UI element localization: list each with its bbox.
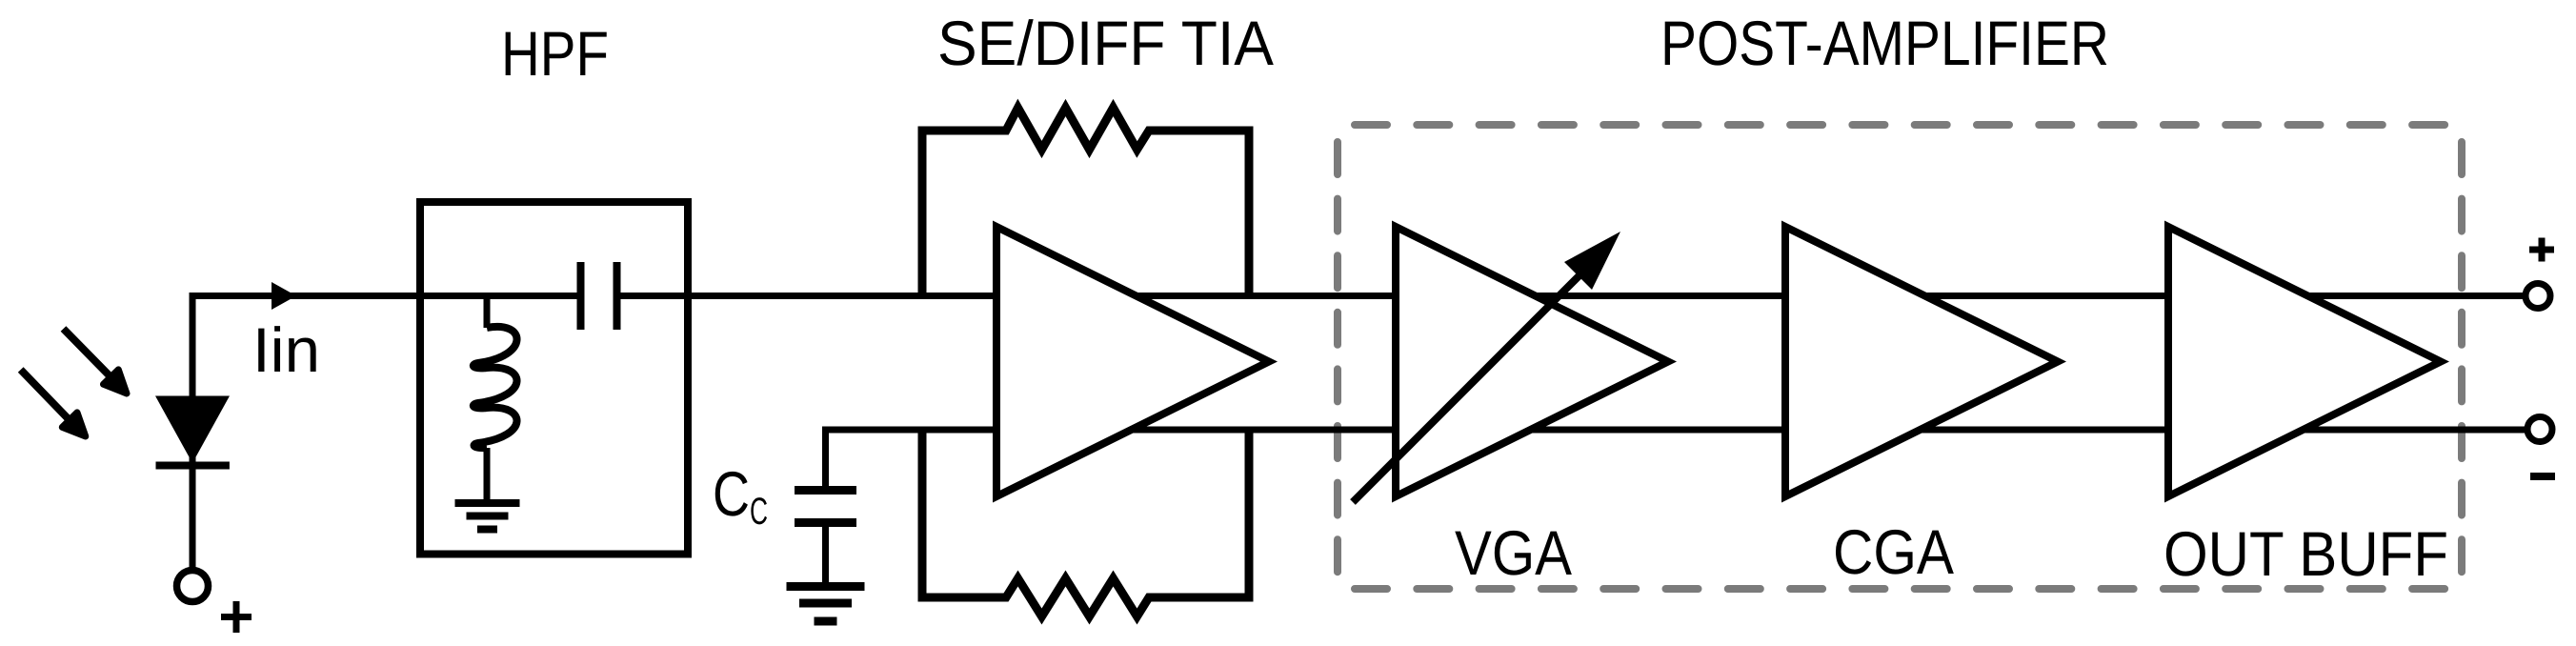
svg-text:POST-AMPLIFIER: POST-AMPLIFIER <box>1660 8 2109 78</box>
svg-text:CGA: CGA <box>1833 516 1954 587</box>
svg-text:OUT BUFF: OUT BUFF <box>2163 518 2448 589</box>
svg-text:C: C <box>713 458 750 529</box>
svg-text:HPF: HPF <box>501 18 609 89</box>
svg-text:Iin: Iin <box>252 314 320 385</box>
svg-text:C: C <box>750 491 768 533</box>
svg-text:SE/DIFF TIA: SE/DIFF TIA <box>937 8 1274 78</box>
svg-text:VGA: VGA <box>1455 517 1572 588</box>
